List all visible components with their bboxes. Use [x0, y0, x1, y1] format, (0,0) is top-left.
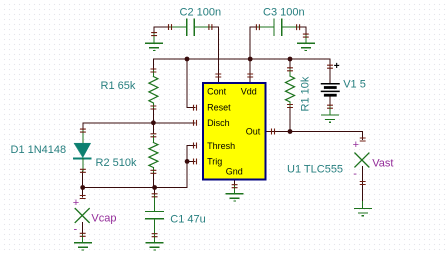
svg-text:D1 1N4148: D1 1N4148	[11, 144, 67, 156]
wire: Trig stub	[187, 160, 195, 162]
wire: Disch row to R2 top	[152, 123, 154, 134]
wire: Cont pin stub	[217, 76, 219, 83]
svg-text:+: +	[353, 139, 359, 151]
wire: bottom bus to Vcap	[82, 188, 84, 198]
svg-text:Vcap: Vcap	[91, 212, 116, 224]
node: junction Out/R1 10k	[288, 129, 293, 134]
wire: bus left end down to R1 top	[152, 59, 154, 71]
wire: C3 right to ground corner	[282, 27, 306, 35]
wire: Disch row down to D1 top	[82, 123, 84, 131]
svg-text:C2 100n: C2 100n	[180, 7, 222, 19]
IC U1 TLC555 box	[203, 83, 266, 180]
ground (U1 Gnd pin)	[226, 186, 243, 201]
capacitor C3	[258, 19, 298, 36]
battery V1	[322, 84, 340, 96]
terminal marks (component pin connection ticks)	[80, 25, 365, 237]
wire: C3 left / Vdd pin vertical	[249, 27, 251, 75]
resistor R1 65k	[149, 71, 158, 108]
wire: C2 right to Cont pin	[194, 27, 218, 75]
svg-text:R1 65k: R1 65k	[101, 80, 136, 92]
wire: bottom bus up to Thresh	[187, 146, 195, 188]
wire: Out net horizontal	[266, 131, 363, 133]
node: junction Trig tap	[185, 159, 190, 164]
wire: C2 left to ground corner	[154, 27, 187, 34]
node: junction bus/Vdd	[248, 57, 253, 62]
ground (C2)	[146, 34, 163, 50]
ground (Vcap)	[74, 235, 91, 250]
wire: D1 bottom to bottom bus	[82, 171, 84, 188]
resistor R2 510k	[149, 135, 158, 172]
wire: V1 bottom lead	[329, 97, 331, 107]
ground (C1)	[146, 235, 163, 250]
node: junction bus/Reset	[185, 57, 190, 62]
wire: bottom bus horizontal	[83, 187, 187, 189]
wire: R1 10k bottom to Out net	[289, 106, 291, 132]
wire: C3 left horizontal	[250, 26, 274, 28]
capacitor C1	[146, 195, 164, 235]
wire: bus to R1 10k top	[289, 59, 291, 69]
ground (V1)	[322, 107, 339, 123]
svg-text:-: -	[353, 168, 357, 180]
svg-text:V1 5: V1 5	[343, 79, 366, 91]
svg-text:+: +	[73, 197, 79, 209]
probe Vast X	[355, 153, 369, 167]
wire: V1 top lead	[329, 67, 331, 84]
wire: R1 bottom to Disch row	[152, 108, 154, 123]
svg-text:+: +	[334, 61, 340, 72]
svg-text:R1 10k: R1 10k	[300, 76, 312, 111]
node: junction Disch row/R1/R2	[151, 120, 156, 125]
wire: bottom bus to C1 top	[154, 188, 156, 196]
svg-text:Gnd: Gnd	[226, 167, 243, 177]
capacitor C2	[170, 19, 210, 36]
svg-text:Cont: Cont	[207, 87, 227, 97]
wire: Gnd pin stub	[234, 181, 236, 187]
wire: Vcap probe to ground	[82, 223, 84, 235]
wire: Vdd bus horizontal	[153, 58, 330, 60]
svg-text:Thresh: Thresh	[207, 141, 235, 151]
svg-text:R2 510k: R2 510k	[96, 157, 137, 169]
resistor R1 10k	[286, 69, 295, 106]
probe Vcap X	[75, 209, 89, 223]
svg-text:Vast: Vast	[372, 157, 393, 169]
wire: Vast probe to ground	[362, 167, 364, 202]
svg-text:U1 TLC555: U1 TLC555	[287, 164, 343, 176]
svg-text:Out: Out	[246, 127, 261, 137]
svg-text:Reset: Reset	[207, 103, 231, 113]
ground (Vast)	[354, 202, 371, 216]
svg-text:-: -	[74, 223, 78, 235]
wire: R2 bottom to bottom bus	[152, 172, 154, 188]
svg-text:C1 47u: C1 47u	[170, 213, 205, 225]
node: junction bus/R1 10k	[288, 57, 293, 62]
wire: Disch row horizontal	[83, 122, 195, 124]
node: junction bottom bus/Vcap	[80, 185, 85, 190]
ground (C3)	[298, 36, 315, 51]
diode D1	[74, 131, 91, 171]
svg-text:Vdd: Vdd	[241, 87, 257, 97]
wire: Out net down to Vast	[362, 132, 364, 140]
wire: Vdd pin stub	[249, 76, 251, 83]
wire: bus to Reset pin	[187, 59, 195, 108]
wire: bus right end down to V1 plus	[329, 59, 331, 67]
wire: Out pin stub	[266, 131, 273, 133]
node: junction bottom bus/C1	[152, 185, 157, 190]
svg-text:Disch: Disch	[207, 118, 230, 128]
svg-text:Trig: Trig	[207, 157, 222, 167]
svg-text:C3 100n: C3 100n	[263, 7, 305, 19]
